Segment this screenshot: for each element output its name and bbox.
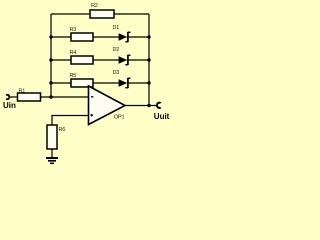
diode D3 bbox=[113, 70, 131, 88]
svg-text:D1: D1 bbox=[113, 25, 120, 31]
wire row2 left bbox=[51, 59, 71, 61]
wire row1 middle bbox=[93, 36, 119, 38]
wire row3 middle bbox=[93, 82, 119, 84]
wire Uin to R1 bbox=[10, 96, 18, 98]
node junction right bus output bbox=[147, 104, 150, 107]
svg-text:R3: R3 bbox=[70, 27, 77, 33]
wire noninverting input to R6 bbox=[52, 116, 89, 126]
svg-text:D3: D3 bbox=[113, 70, 120, 76]
wire row3 left bbox=[51, 82, 71, 84]
terminal Uuit bbox=[154, 103, 170, 121]
resistor R3 bbox=[70, 27, 94, 41]
resistor R2 bbox=[90, 3, 114, 18]
svg-text:R4: R4 bbox=[70, 50, 77, 56]
node junction right bus row3 bbox=[147, 81, 150, 84]
op-amp OP1 bbox=[89, 86, 126, 125]
svg-text:D2: D2 bbox=[113, 47, 120, 53]
diode D2 bbox=[113, 47, 131, 65]
svg-text:R1: R1 bbox=[19, 89, 26, 95]
wire op-amp output to Uuit bbox=[125, 105, 157, 107]
node junction right bus row1 bbox=[147, 35, 150, 38]
svg-text:R6: R6 bbox=[59, 127, 66, 133]
svg-text:R5: R5 bbox=[70, 73, 77, 79]
svg-text:Uuit: Uuit bbox=[154, 112, 170, 121]
wire left bus vertical bbox=[50, 14, 52, 97]
node junction left bus row2 bbox=[49, 58, 52, 61]
node junction left bus row1 bbox=[49, 35, 52, 38]
node junction right bus row2 bbox=[147, 58, 150, 61]
diode D1 bbox=[113, 25, 131, 42]
wire right bus vertical bbox=[148, 14, 150, 106]
node junction left bus row3 bbox=[49, 81, 52, 84]
svg-text:Uin: Uin bbox=[3, 101, 16, 110]
wire top feedback right segment bbox=[114, 13, 149, 15]
wire R1 to op-amp inverting input bbox=[41, 96, 89, 98]
node junction left bus input bbox=[49, 95, 52, 98]
resistor R1 bbox=[18, 89, 41, 102]
wire top feedback left segment bbox=[51, 13, 90, 15]
terminal Uin bbox=[3, 95, 16, 110]
wire row2 right bbox=[128, 59, 149, 61]
resistor R5 bbox=[70, 73, 94, 87]
wire row2 middle bbox=[93, 59, 119, 61]
wire row3 right bbox=[128, 82, 149, 84]
ground bbox=[46, 158, 58, 163]
wire row1 right bbox=[128, 36, 149, 38]
resistor R6 bbox=[47, 125, 65, 149]
svg-text:OP1: OP1 bbox=[114, 115, 124, 121]
wire R6 to ground bbox=[51, 149, 53, 158]
svg-text:R2: R2 bbox=[91, 3, 98, 9]
wire row1 left bbox=[51, 36, 71, 38]
resistor R4 bbox=[70, 50, 94, 64]
